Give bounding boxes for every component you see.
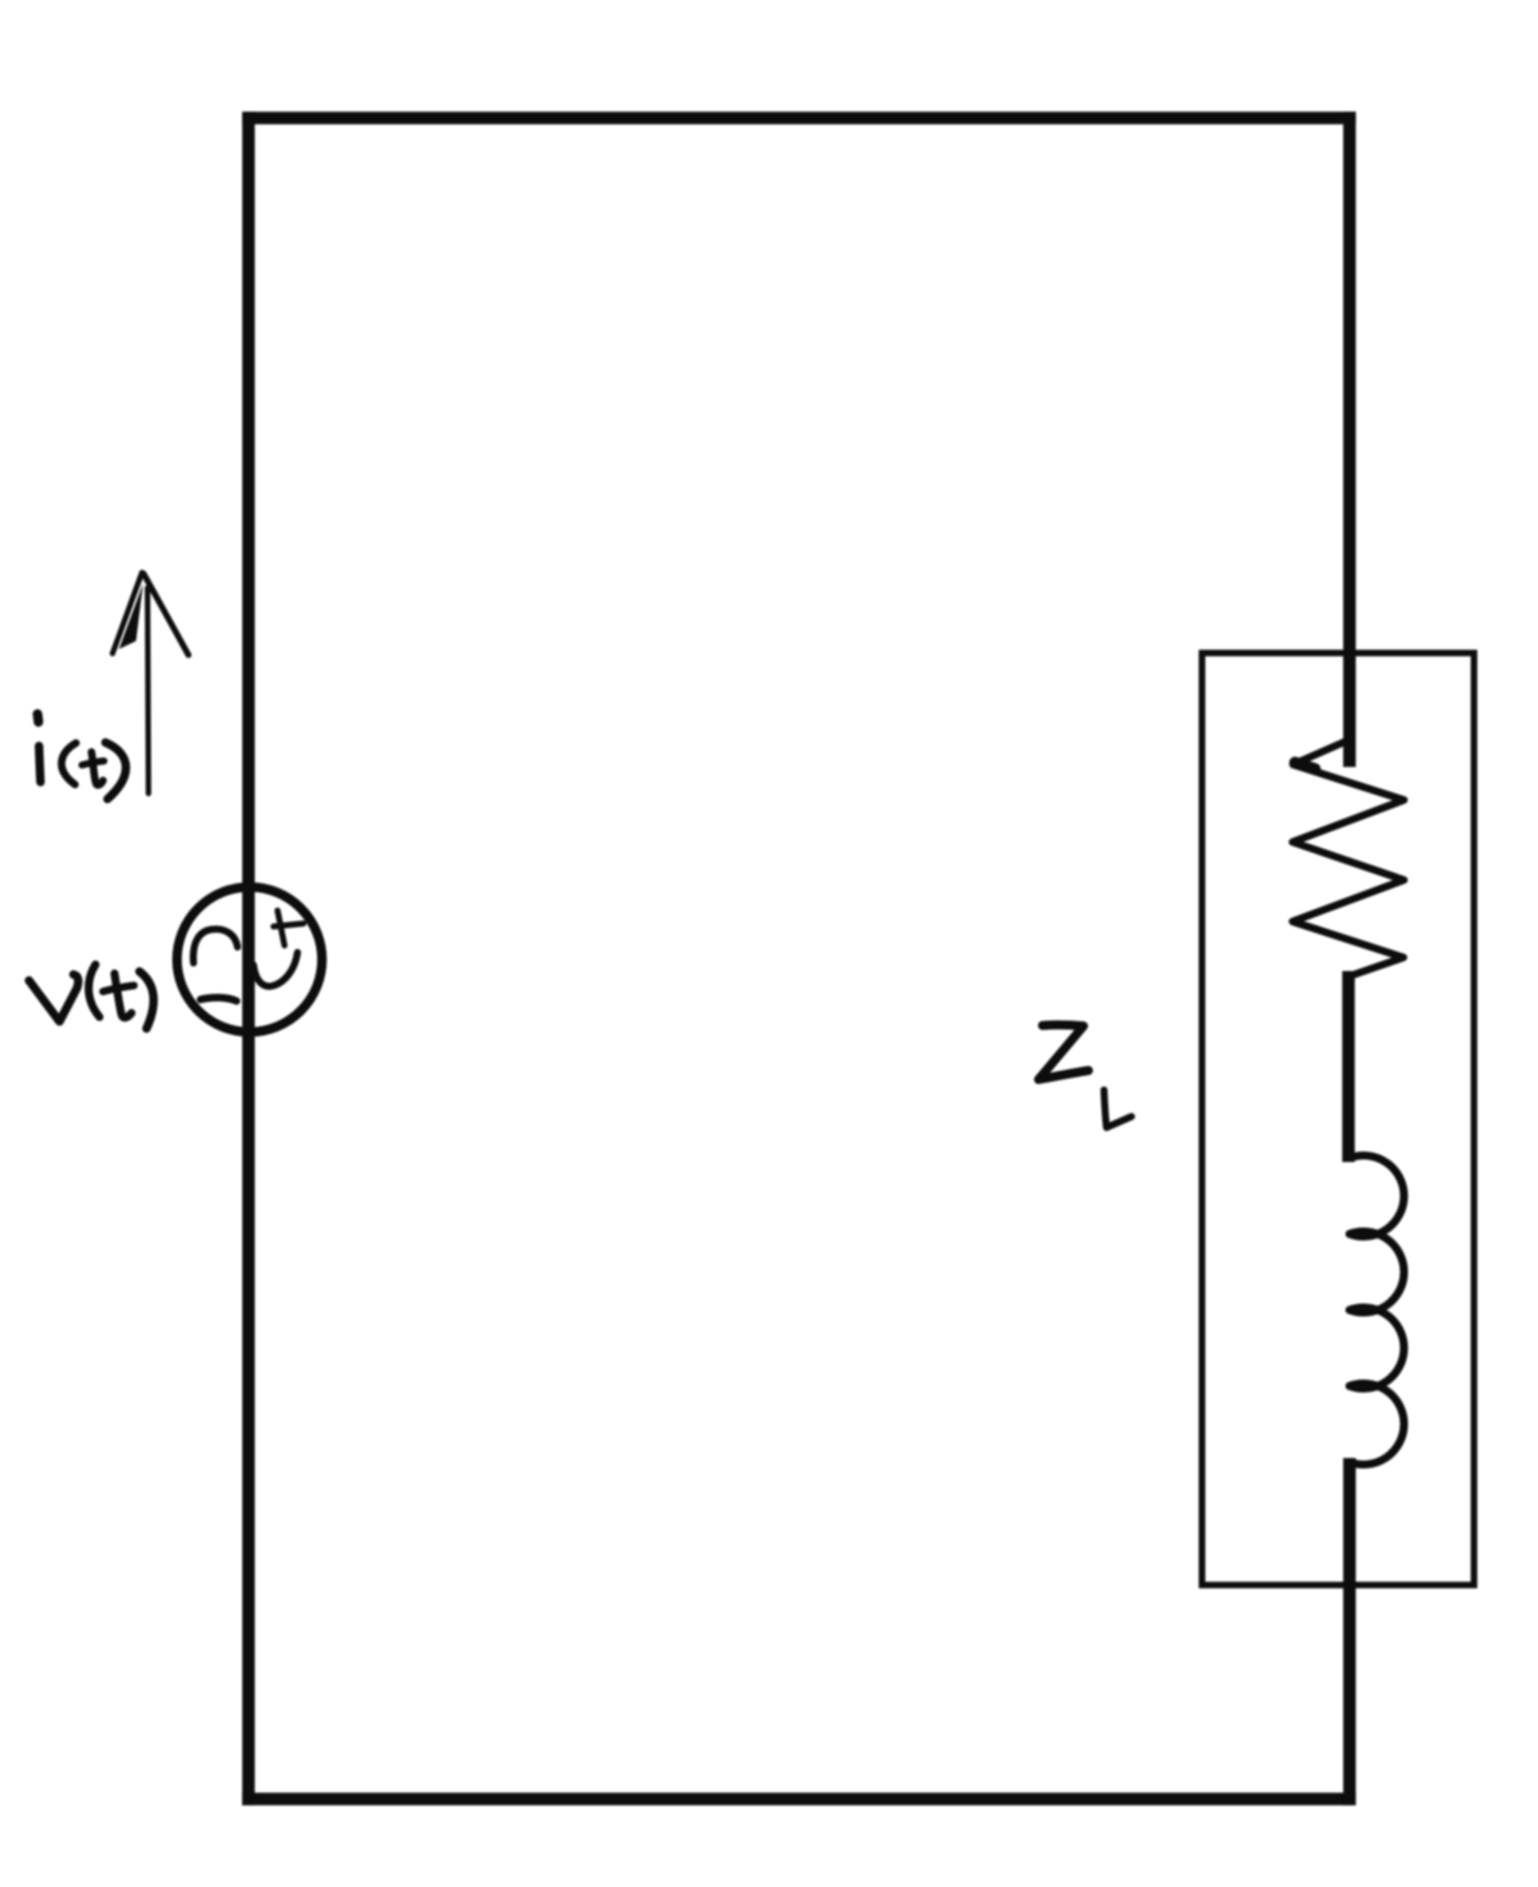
arrow i(t) head left leg bbox=[113, 573, 143, 654]
label i ) paren bbox=[106, 743, 126, 800]
plus polarity mark bbox=[278, 911, 285, 946]
label Z bbox=[1039, 1025, 1089, 1080]
label v letter bbox=[29, 975, 78, 1022]
wire right rail upper segment into load bbox=[1343, 112, 1356, 767]
arrow i(t) shaft bbox=[148, 588, 149, 794]
AC source v(t) circle bbox=[177, 887, 322, 1032]
sine wave right dip bbox=[254, 953, 298, 987]
minus polarity mark bbox=[201, 998, 237, 1001]
resistor first peak retrace blob bbox=[1295, 763, 1315, 770]
arrow i(t) head left wedge retrace bbox=[119, 584, 143, 649]
label i ( paren bbox=[62, 743, 76, 785]
wire bottom rail bbox=[242, 1793, 1356, 1806]
wire between resistor and inductor bbox=[1342, 971, 1355, 1162]
label v ) paren bbox=[140, 972, 154, 1029]
arrow i(t) head right leg bbox=[144, 574, 189, 656]
label L subscript bbox=[1104, 1090, 1132, 1128]
label i t letter bbox=[92, 752, 104, 785]
wire top rail bbox=[242, 112, 1356, 125]
resistor R (zigzag) bbox=[1293, 739, 1405, 977]
wire below inductor to bottom rail bbox=[1343, 1458, 1356, 1805]
inductor L (four arcs) bbox=[1350, 1156, 1405, 1237]
label i bbox=[38, 714, 39, 722]
box ZL load outline bbox=[1202, 653, 1474, 1585]
wire left rail bbox=[242, 112, 255, 1806]
label v t letter bbox=[115, 974, 132, 1018]
label v ( paren bbox=[89, 965, 100, 1018]
sine wave left hump bbox=[193, 929, 237, 963]
